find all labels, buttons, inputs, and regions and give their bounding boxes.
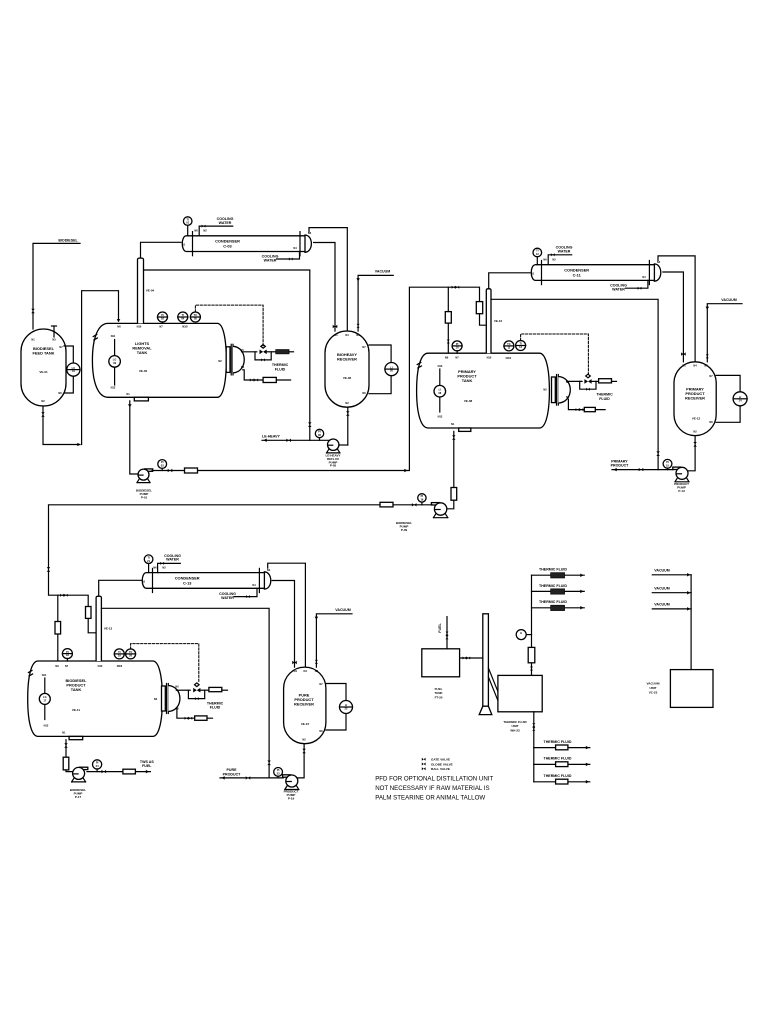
- biodiesel pump P-09: [396, 503, 448, 532]
- svg-text:P-05: P-05: [330, 464, 337, 468]
- svg-text:N6: N6: [58, 391, 62, 395]
- control signal TC-05 to valve: [195, 305, 263, 346]
- svg-text:P-19: P-19: [288, 796, 295, 800]
- high level switch on WH-23: [516, 630, 531, 640]
- pump P-09 discharge line: [49, 505, 433, 633]
- svg-text:N5: N5: [241, 365, 245, 369]
- valve on primary product line: [639, 468, 644, 471]
- svg-text:VACUUM: VACUUM: [335, 608, 351, 612]
- svg-text:N12: N12: [111, 386, 116, 390]
- vacuum unit VC-23: [647, 670, 713, 708]
- svg-text:FEED TANK: FEED TANK: [33, 351, 55, 356]
- thermic return header 3: [534, 774, 590, 784]
- spool on thermic supply 1: [276, 350, 289, 354]
- biodiesel pump P-17: [70, 767, 88, 799]
- svg-text:WATER: WATER: [221, 596, 234, 600]
- svg-text:N7: N7: [159, 325, 163, 329]
- svg-text:FLUID: FLUID: [210, 706, 221, 710]
- svg-text:PI: PI: [318, 430, 321, 434]
- svg-text:N6: N6: [319, 729, 323, 733]
- reflux pump P-05: [326, 439, 341, 468]
- svg-text:N7: N7: [709, 374, 713, 378]
- vapor line C-11 to VE-12: [658, 256, 695, 362]
- svg-text:WATER: WATER: [558, 249, 571, 253]
- svg-text:VE-10: VE-10: [494, 319, 503, 323]
- temperature controller TC-11: [504, 341, 514, 351]
- vacuum header 2: [652, 587, 691, 595]
- branch into VE-08 top: [447, 287, 449, 353]
- svg-text:TANK: TANK: [137, 350, 148, 355]
- valve on WH-23 inlet: [530, 667, 533, 671]
- svg-text:N3/5: N3/5: [182, 325, 188, 329]
- spool on thermic supply 2: [599, 379, 612, 383]
- svg-text:FLUID: FLUID: [599, 397, 610, 401]
- biodiesel pump P-01: [136, 469, 153, 499]
- condensate line C-03 to VE-06: [314, 243, 335, 332]
- svg-text:PI: PI: [66, 650, 69, 654]
- vacuum header 3: [652, 603, 691, 611]
- svg-text:VACUUM: VACUUM: [654, 569, 670, 573]
- cooling water inlet C-03: [199, 217, 233, 236]
- valve legend: [422, 758, 453, 771]
- svg-text:PI: PI: [161, 460, 164, 464]
- temperature indicator TI on C-11: [533, 248, 542, 265]
- svg-text:N2: N2: [345, 401, 349, 405]
- svg-text:N4: N4: [293, 246, 297, 250]
- valve on P-01 discharge: [168, 469, 173, 472]
- svg-text:N7: N7: [455, 355, 459, 359]
- valve on P-09 discharge: [412, 503, 417, 506]
- pressure indicator on P-17: [93, 760, 102, 772]
- thermic fluid supply to VE-08: [567, 380, 582, 382]
- svg-text:N2: N2: [552, 258, 556, 262]
- sight glass above P-17: [63, 757, 69, 770]
- svg-text:N3/4: N3/4: [506, 356, 512, 360]
- control valve train3: [193, 683, 200, 693]
- condenser C-03: [182, 229, 312, 256]
- pressure indicator PI-10: [452, 341, 462, 353]
- thermic fluid return VE-08: [568, 399, 605, 409]
- svg-text:N2: N2: [41, 399, 45, 403]
- valve on pure product line: [246, 776, 251, 779]
- VE-08 bottom flange: [459, 428, 471, 431]
- strainer on P-01 discharge: [185, 468, 198, 473]
- svg-text:FUEL: FUEL: [142, 764, 152, 768]
- condensate line C-11 to VE-12: [663, 272, 684, 362]
- condensate line C-13 to VE-15: [272, 581, 294, 668]
- svg-text:VE-01: VE-01: [39, 370, 48, 374]
- valve on riser drain: [308, 422, 311, 427]
- svg-text:N4: N4: [252, 583, 256, 587]
- pressure indicator on P-09: [418, 494, 426, 505]
- svg-text:NOT NECESSARY IF RAW MATERIAL: NOT NECESSARY IF RAW MATERIAL IS: [375, 785, 489, 792]
- svg-text:N3: N3: [52, 338, 56, 342]
- svg-text:N5: N5: [175, 685, 179, 689]
- svg-text:GATE VALVE: GATE VALVE: [431, 758, 450, 762]
- svg-text:N1: N1: [142, 579, 146, 583]
- cooling water inlet C-13: [158, 554, 181, 573]
- svg-text:N1: N1: [62, 731, 66, 735]
- note text: [375, 776, 493, 802]
- svg-text:WATER: WATER: [612, 287, 625, 291]
- cooling water inlet C-11: [548, 246, 572, 265]
- svg-text:PI: PI: [161, 313, 164, 317]
- svg-text:LI: LI: [345, 703, 348, 707]
- level gauge in VE-08: [434, 369, 446, 412]
- vapor riser VE-13: [96, 596, 112, 661]
- svg-text:C-11: C-11: [573, 272, 582, 277]
- fuel tank FT-20: [422, 649, 460, 700]
- nozzle stub on VE-11 left head: [28, 671, 32, 677]
- svg-text:N4: N4: [304, 669, 308, 673]
- pressure indicator on P-01: [158, 460, 167, 471]
- le-heavy draw line: [262, 435, 330, 442]
- VE-08 outlet to pump P-09: [447, 431, 454, 508]
- thermic supply after valve: [591, 380, 599, 382]
- condenser C-11: [531, 258, 661, 285]
- thermic fluid header 1: [532, 568, 585, 578]
- svg-text:PURE: PURE: [227, 768, 238, 772]
- svg-text:N6: N6: [153, 565, 157, 569]
- biodiesel product tank VE-11: [28, 661, 163, 736]
- vacuum header 1: [652, 569, 691, 577]
- svg-text:VC-23: VC-23: [649, 691, 658, 695]
- condenser C-13: [142, 565, 271, 592]
- level indicator LI on VE-15: [340, 701, 353, 714]
- svg-text:N6: N6: [543, 258, 547, 262]
- svg-text:TC: TC: [194, 313, 198, 317]
- svg-text:N12: N12: [44, 724, 49, 728]
- svg-text:N6: N6: [362, 391, 366, 395]
- svg-text:VACUUM: VACUUM: [721, 298, 737, 302]
- vapor line riser2 to condenser: [489, 273, 530, 289]
- cooling water outlet C-03: [262, 252, 300, 263]
- riser3 drain line: [101, 608, 269, 778]
- svg-text:THERMIC: THERMIC: [207, 701, 224, 705]
- pure product draw line: [220, 768, 283, 779]
- svg-text:FUEL: FUEL: [438, 623, 442, 633]
- svg-text:VACUUM: VACUUM: [647, 682, 660, 686]
- branch into VE-11 top: [57, 595, 59, 661]
- biodiesel feed line label: [58, 238, 78, 242]
- svg-text:LI: LI: [739, 395, 742, 399]
- svg-text:VE-04: VE-04: [146, 289, 155, 293]
- svg-text:VACUUM: VACUUM: [654, 603, 670, 607]
- pressure indicator PI-02: [158, 312, 168, 323]
- temperature indicator TI-12: [516, 341, 526, 351]
- svg-text:BALL VALVE: BALL VALVE: [431, 767, 450, 771]
- svg-text:P-17: P-17: [75, 795, 82, 799]
- pump P-01 discharge line: [152, 287, 486, 470]
- svg-text:N11: N11: [111, 334, 116, 338]
- vapor riser VE-04: [138, 258, 155, 323]
- svg-text:H: H: [520, 631, 522, 635]
- svg-text:THERMIC FLUID: THERMIC FLUID: [539, 568, 567, 572]
- svg-text:N13: N13: [438, 364, 443, 368]
- bioheavy receiver VE-06: [325, 331, 369, 407]
- svg-text:N7: N7: [319, 682, 323, 686]
- valves on thermic return 1: [250, 379, 258, 382]
- level indicator LI-12: [733, 392, 747, 406]
- heating dome on VE-02: [226, 344, 245, 375]
- sight glass on VE-08 top branch: [445, 312, 451, 324]
- valve on VE-01 outlet: [41, 412, 44, 417]
- svg-text:RECEIVER: RECEIVER: [685, 396, 705, 401]
- primary product draw line: [611, 459, 674, 471]
- valve on tws line: [102, 770, 107, 773]
- level bracket on VE-01: [64, 346, 73, 393]
- valve on VE-08 outlet: [452, 435, 455, 440]
- vapor line riser3 to condenser: [99, 580, 145, 596]
- sight glass above P-09: [451, 488, 457, 501]
- pressure indicator on P-13: [663, 459, 672, 469]
- svg-text:WH-23: WH-23: [510, 728, 520, 732]
- riser2 drain line: [491, 299, 658, 469]
- thermic supply after valve 3: [199, 689, 209, 691]
- svg-text:TI: TI: [519, 342, 522, 346]
- svg-text:RECEIVER: RECEIVER: [294, 702, 314, 707]
- svg-text:TI: TI: [536, 249, 539, 253]
- bypass loop train1: [255, 352, 271, 362]
- pump P-05 discharge: [339, 444, 348, 446]
- thermic fluid label train1: [272, 363, 289, 371]
- svg-text:N2: N2: [543, 388, 547, 392]
- svg-text:N11: N11: [42, 673, 47, 677]
- svg-text:UNIT: UNIT: [650, 686, 657, 690]
- svg-text:THERMIC FLUID: THERMIC FLUID: [544, 740, 572, 744]
- svg-text:LI: LI: [390, 365, 393, 369]
- thermic supply tail 3: [222, 689, 228, 691]
- svg-text:RECEIVER: RECEIVER: [337, 357, 357, 362]
- spool on thermic supply 3: [209, 687, 222, 691]
- svg-text:N1: N1: [126, 392, 130, 396]
- svg-text:N5/6: N5/6: [117, 664, 123, 668]
- thermic fluid supply to VE-02: [242, 351, 257, 353]
- temperature indicator TI-04: [178, 312, 188, 323]
- svg-text:VE-12: VE-12: [692, 417, 701, 421]
- chimney stack: [479, 614, 492, 715]
- strainer on P-09 discharge: [380, 502, 393, 507]
- product pump P-19: [283, 775, 299, 801]
- svg-text:TANK: TANK: [71, 687, 82, 692]
- svg-text:PI: PI: [96, 761, 99, 765]
- nozzle stub on VE-08 left head: [417, 363, 421, 369]
- svg-text:PRIMARY: PRIMARY: [611, 459, 628, 463]
- svg-text:N4: N4: [642, 275, 646, 279]
- valves on fuel inlet: [446, 632, 449, 640]
- svg-text:GLOBE VALVE: GLOBE VALVE: [431, 762, 453, 766]
- valve on condensate line 2: [681, 352, 686, 355]
- tws as fuel line: [87, 760, 154, 774]
- feed tank VE-01: [21, 329, 66, 406]
- sight glass on WH-23 inlet: [528, 647, 535, 662]
- svg-text:TC: TC: [129, 650, 133, 654]
- thermic supply tail 2: [612, 380, 617, 382]
- svg-text:TI: TI: [118, 650, 121, 654]
- fuel inlet line: [438, 617, 447, 649]
- thermic supply tail 1: [289, 351, 293, 353]
- pressure indicator PI on P-05: [315, 429, 323, 440]
- svg-text:PI: PI: [421, 494, 424, 498]
- vapor line riser to condenser: [141, 242, 182, 258]
- spool on thermic return 3: [195, 716, 207, 720]
- thermic fluid return VE-02: [243, 370, 291, 380]
- valve on VE-11 outlet: [64, 743, 67, 748]
- svg-text:LE-HEAVY: LE-HEAVY: [262, 435, 281, 439]
- level controller LC-01: [67, 363, 80, 376]
- svg-text:PRODUCT: PRODUCT: [611, 464, 630, 468]
- svg-text:N2: N2: [203, 229, 207, 233]
- valves on thermic return 2: [576, 408, 584, 411]
- svg-text:FLUID: FLUID: [275, 367, 286, 371]
- primary product tank VE-08: [417, 353, 550, 428]
- vent stub N3 on VE-01: [52, 326, 57, 337]
- heating dome on VE-08: [552, 375, 571, 406]
- svg-text:WATER: WATER: [264, 258, 277, 262]
- bypass loop train2: [580, 381, 596, 390]
- valve on riser2 drain: [656, 451, 659, 456]
- thermic fluid label train3: [207, 701, 224, 709]
- thermic supply after valve 1: [266, 351, 276, 353]
- nozzle stub on VE-02 left head: [93, 335, 97, 341]
- double valve on train3 feed: [60, 594, 68, 597]
- valve on condensate line 3: [292, 661, 297, 664]
- svg-text:LG: LG: [43, 695, 47, 699]
- thermic fluid unit WH-23: [498, 675, 542, 732]
- valve on riser3 drain: [267, 761, 270, 766]
- heating dome on VE-11: [162, 684, 180, 714]
- svg-text:N7: N7: [362, 345, 366, 349]
- VE-02 outlet to pump P-01: [130, 401, 139, 474]
- level bracket on VE-12: [716, 375, 740, 422]
- level gauge in VE-11: [39, 678, 50, 720]
- sight glass on train2 feed drop: [476, 302, 482, 314]
- svg-text:THERMIC: THERMIC: [272, 363, 289, 367]
- thermic fluid header 2: [532, 584, 585, 594]
- VE-11 bottom flange: [69, 736, 83, 739]
- svg-text:N3: N3: [704, 364, 708, 368]
- fuel line to heater: [460, 657, 483, 660]
- svg-text:N2: N2: [302, 738, 306, 742]
- svg-text:N10: N10: [137, 325, 142, 329]
- product pump P-13: [673, 467, 689, 493]
- level indicator LI-05: [385, 363, 398, 376]
- pressure indicator on P-19: [274, 768, 283, 778]
- svg-text:PI: PI: [456, 342, 459, 346]
- vacuum line train2: [706, 298, 742, 362]
- valve on feed line: [31, 309, 34, 314]
- arrow at riser of P-01 line: [404, 469, 407, 473]
- svg-text:N6: N6: [709, 420, 713, 424]
- svg-text:LC: LC: [72, 366, 76, 370]
- svg-text:N2: N2: [162, 565, 166, 569]
- lights removal tank VE-02: [92, 323, 226, 397]
- thermic return header riser: [531, 575, 533, 675]
- svg-text:N7: N7: [59, 345, 63, 349]
- svg-text:P-09: P-09: [401, 528, 408, 532]
- svg-text:P-13: P-13: [678, 489, 685, 493]
- svg-text:PI: PI: [277, 768, 280, 772]
- thermic return header 2: [534, 757, 590, 767]
- valve on train3 feed drop: [47, 567, 50, 572]
- svg-text:N4: N4: [345, 333, 349, 337]
- arrow into VE-02 N6: [117, 319, 121, 322]
- svg-text:N10: N10: [487, 355, 492, 359]
- svg-text:N1: N1: [531, 272, 535, 276]
- svg-text:WATER: WATER: [166, 558, 179, 562]
- cooling water outlet C-13: [219, 588, 257, 600]
- svg-text:N10: N10: [98, 664, 103, 668]
- svg-text:VE-11: VE-11: [72, 708, 81, 712]
- svg-text:THERMIC FLUID: THERMIC FLUID: [544, 774, 572, 778]
- svg-text:TANK: TANK: [462, 378, 473, 383]
- svg-text:N12: N12: [438, 415, 443, 419]
- svg-text:FT-20: FT-20: [435, 695, 443, 699]
- sight glass on VE-11 top branch: [55, 622, 61, 635]
- svg-text:VE-08: VE-08: [464, 399, 473, 403]
- level gauge in VE-02: [109, 340, 121, 386]
- svg-text:N7: N7: [65, 664, 69, 668]
- vapor line C-03 to VE-06: [309, 228, 347, 331]
- VE-06 bottom outlet: [347, 407, 349, 445]
- valve on VE-12 outlet: [693, 442, 696, 447]
- svg-text:VE-06: VE-06: [343, 376, 352, 380]
- svg-text:N1: N1: [31, 338, 35, 342]
- sight glass on train3 feed drop: [86, 607, 92, 619]
- bypass loop train3: [188, 690, 204, 700]
- double valve on train2 feed: [452, 286, 460, 289]
- arrow into recycle riser: [77, 443, 80, 447]
- svg-text:LG: LG: [113, 358, 117, 362]
- VE-15 bottom outlet: [298, 744, 304, 778]
- svg-text:PRODUCT: PRODUCT: [223, 773, 242, 777]
- primary product receiver VE-12: [674, 362, 716, 436]
- VE-12 bottom outlet: [689, 436, 696, 471]
- svg-text:N1: N1: [294, 669, 298, 673]
- vacuum line train3: [315, 608, 352, 667]
- temperature controller TC on VE-11: [126, 649, 136, 659]
- thermic fluid supply to VE-11: [176, 689, 190, 691]
- thermic fluid return VE-11: [177, 709, 213, 719]
- thermic fluid label train2: [596, 392, 613, 400]
- svg-text:N2: N2: [218, 359, 222, 363]
- svg-text:TWS AS: TWS AS: [140, 760, 154, 764]
- svg-text:TI: TI: [187, 217, 190, 221]
- svg-text:PALM STEARINE OR ANIMAL TALLOW: PALM STEARINE OR ANIMAL TALLOW: [375, 795, 485, 802]
- vapor riser VE-10: [486, 289, 502, 354]
- svg-text:TI: TI: [147, 555, 150, 559]
- svg-text:N3: N3: [356, 333, 360, 337]
- svg-text:VACUUM: VACUUM: [375, 270, 391, 274]
- VE-02 bottom flange: [134, 397, 148, 401]
- VE-11 outlet to pump P-17: [66, 740, 73, 772]
- WH-23 bottom outlet: [532, 712, 535, 782]
- svg-text:C-13: C-13: [183, 580, 192, 585]
- svg-text:THERMIC: THERMIC: [596, 392, 613, 396]
- svg-text:VE-15: VE-15: [301, 722, 310, 726]
- level bracket on VE-06: [369, 345, 391, 394]
- svg-text:VE-13: VE-13: [104, 627, 113, 631]
- valves on thermic return 3: [185, 717, 193, 720]
- svg-text:PFD FOR OPTIONAL DISTILLATION: PFD FOR OPTIONAL DISTILLATION UNIT: [375, 776, 493, 783]
- svg-text:N5: N5: [566, 395, 570, 399]
- svg-text:BIODIESEL: BIODIESEL: [58, 238, 78, 242]
- VE-01 bottom outlet line: [43, 406, 80, 445]
- svg-text:N1: N1: [451, 422, 455, 426]
- thermic fluid header 3: [532, 600, 585, 610]
- svg-text:TC: TC: [507, 342, 511, 346]
- control signal TC to valve train2: [521, 334, 589, 374]
